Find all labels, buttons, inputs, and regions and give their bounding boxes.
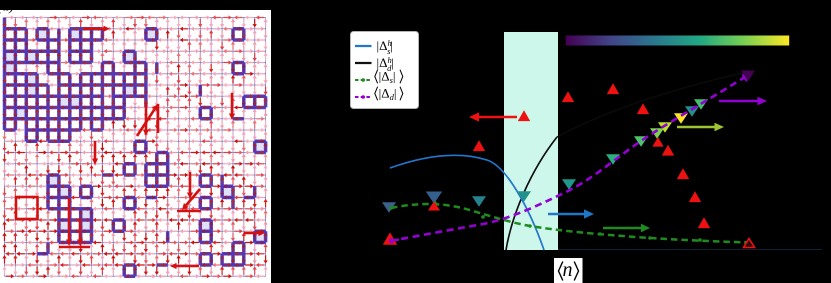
black curve |Delta_d^h|: [506, 137, 557, 250]
red triangle markers: [383, 232, 397, 244]
blue curve |Delta_s^h|: [390, 155, 544, 250]
viridis down-triangle markers: [382, 202, 396, 213]
purple dashed line arrowhead: [742, 74, 752, 83]
x-axis label <n>: [554, 258, 583, 283]
purple node dot over bottom-left red triangle: [389, 238, 394, 243]
svg-text:n: n: [563, 259, 573, 281]
svg-text:(a): (a): [0, 0, 14, 15]
strong red current features: [84, 27, 104, 30]
green dashed curve <|Delta_s|>: [391, 204, 746, 242]
legend box: [351, 32, 419, 109]
purple arrow (right): [719, 100, 758, 102]
purple dashed curve <|Delta_d|>: [390, 77, 745, 241]
shaded vertical band: [504, 32, 558, 250]
light blue filled plaquettes: [81, 209, 92, 220]
green arrow (right): [603, 227, 641, 229]
thick blue bonds (plaquette clusters): [5, 18, 266, 277]
blue arrow (right): [548, 213, 584, 216]
red arrow (left): [479, 116, 517, 119]
svg-text:|Δd|: |Δd|: [379, 86, 397, 103]
left panel (a): lattice bond-current map: [0, 10, 271, 283]
green curve node dots: [389, 206, 393, 210]
faint continuation of black curve: [557, 72, 748, 137]
x axis line: [558, 249, 822, 251]
dark purple end marker: [741, 71, 755, 82]
lattice grid lines: [5, 18, 266, 277]
svg-text:|Δs|: |Δs|: [379, 69, 396, 86]
yellow-green arrow (right): [677, 126, 715, 128]
bond current arrows: [6, 15, 15, 19]
colorbar (viridis): [566, 36, 790, 46]
open red triangle at green curve end: [744, 239, 755, 248]
